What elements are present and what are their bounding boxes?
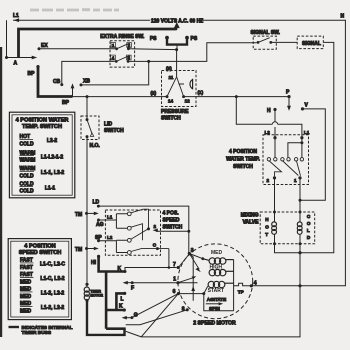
svg-text:BP: BP bbox=[28, 71, 36, 77]
thick internal timer buss top bbox=[19, 29, 177, 58]
motor node 1 bbox=[173, 276, 197, 284]
wire EX to pressure switch feed bbox=[39, 48, 177, 51]
node K1 bbox=[118, 266, 127, 273]
svg-text:COLD: COLD bbox=[20, 141, 35, 147]
pressure switch contact 11 bbox=[167, 75, 184, 96]
wire branch to speed switch 2 bbox=[153, 229, 191, 233]
label 4 POSITION WATER TEMP. SWITCH bbox=[226, 149, 260, 170]
svg-text:SPIN: SPIN bbox=[209, 306, 220, 311]
mixing valve box bbox=[260, 212, 315, 244]
svg-text:K: K bbox=[119, 304, 123, 310]
wire left rail bbox=[5, 20, 8, 59]
svg-text:L: L bbox=[307, 228, 310, 233]
lid switch box bbox=[81, 116, 99, 140]
node XB bbox=[80, 78, 91, 86]
wire N rail right side down to motor line bbox=[251, 20, 345, 286]
extra rinse switch box bbox=[110, 41, 135, 67]
wire lid switch down to timer motor bbox=[86, 137, 88, 287]
svg-text:L2: L2 bbox=[265, 130, 271, 135]
motor node 7 bbox=[173, 255, 189, 269]
svg-text:O: O bbox=[265, 225, 269, 230]
pressure switch box bbox=[162, 71, 197, 107]
wire contact 5 to signal switch bbox=[130, 43, 257, 63]
lid switch wire from BP line bbox=[86, 97, 88, 120]
motor blade 3 to HIGH with arrow bbox=[189, 254, 201, 273]
svg-text:HI: HI bbox=[91, 260, 97, 266]
node HI bbox=[91, 255, 100, 266]
extra rinse contact 4 bbox=[111, 55, 118, 63]
svg-text:K: K bbox=[118, 266, 122, 272]
speed row fast/med bbox=[20, 272, 65, 285]
speed switch blades bbox=[131, 209, 169, 251]
svg-text:SWITCH: SWITCH bbox=[161, 116, 181, 122]
svg-text:FAST: FAST bbox=[20, 265, 33, 271]
label PRESSURE SWITCH bbox=[161, 109, 189, 122]
faint washed-out header text bbox=[30, 8, 119, 11]
motor circle dashed bbox=[178, 244, 253, 319]
wire K to motor node 7 bbox=[125, 268, 177, 272]
svg-text:L1-2, L2-2: L1-2, L2-2 bbox=[41, 291, 65, 297]
wire H to L2 with hop bbox=[272, 110, 277, 138]
svg-text:L: L bbox=[121, 296, 124, 302]
hot solenoid coil bbox=[265, 211, 276, 246]
speed table title bbox=[19, 244, 62, 256]
svg-text:HIGH: HIGH bbox=[210, 264, 223, 270]
pressure switch contact 14 bbox=[166, 95, 174, 104]
svg-text:TIMER BUSS: TIMER BUSS bbox=[22, 330, 52, 336]
connector PS right bbox=[185, 36, 198, 42]
svg-text:AGITATE: AGITATE bbox=[207, 297, 226, 302]
svg-text:T: T bbox=[265, 232, 268, 237]
temp contact circles bbox=[267, 158, 303, 161]
svg-text:MED: MED bbox=[20, 308, 32, 314]
node C speed switch bbox=[153, 243, 159, 251]
svg-text:PRESSURE: PRESSURE bbox=[161, 109, 189, 115]
svg-text:4 POSITION WATER: 4 POSITION WATER bbox=[16, 118, 69, 124]
motor HIGH winding bbox=[209, 264, 234, 276]
svg-text:4 POS.: 4 POS. bbox=[163, 210, 180, 216]
extra rinse blade 4-5 bbox=[116, 55, 130, 61]
svg-text:XB: XB bbox=[83, 78, 90, 84]
node TM upper arrow bbox=[75, 212, 99, 218]
svg-text:2: 2 bbox=[267, 178, 270, 183]
svg-text:2: 2 bbox=[154, 224, 157, 229]
wire PS to EX junction bbox=[175, 45, 178, 52]
svg-text:8: 8 bbox=[182, 307, 185, 313]
svg-text:L1-C, L2-C: L1-C, L2-C bbox=[40, 262, 65, 268]
svg-text:CB: CB bbox=[53, 79, 61, 85]
wire L2 down to contact bbox=[274, 138, 276, 158]
pressure switch contact 12 bbox=[182, 95, 190, 104]
svg-text:MED: MED bbox=[211, 250, 223, 256]
motor MED winding bbox=[203, 250, 234, 264]
cold solenoid coil bbox=[297, 211, 311, 246]
extra rinse contact 2 bbox=[127, 43, 132, 51]
svg-text:TM: TM bbox=[75, 247, 82, 253]
node BP top bbox=[28, 65, 40, 77]
motor blade 3 to MED bbox=[189, 254, 204, 261]
speed row med/med 1 bbox=[20, 287, 64, 300]
water temp switch box right bbox=[263, 135, 309, 185]
svg-text:(1): (1) bbox=[198, 90, 204, 95]
thick buss vertical to K2 L bbox=[106, 272, 126, 329]
node AG bbox=[96, 219, 104, 229]
node V bbox=[301, 102, 309, 110]
connector PS left bbox=[150, 36, 169, 42]
connector PS U bracket bbox=[167, 38, 187, 45]
label MIXING VALVE bbox=[241, 212, 259, 225]
svg-text:SPEED: SPEED bbox=[163, 217, 180, 223]
wire node 6 diagonal to bottom corner bbox=[141, 294, 178, 337]
svg-text:LID: LID bbox=[104, 122, 112, 128]
wire F to motor node 1 bbox=[132, 282, 197, 284]
speed row fast/fast bbox=[20, 258, 65, 271]
svg-text:L2: L2 bbox=[107, 235, 113, 240]
svg-text:START: START bbox=[208, 288, 224, 294]
motor winding collector bbox=[233, 260, 235, 311]
svg-text:AG: AG bbox=[96, 222, 104, 228]
water temp row warm/cold bbox=[20, 166, 65, 179]
motor START winding bbox=[208, 281, 234, 294]
wire temp 1 to cold valve bbox=[299, 178, 301, 222]
svg-text:L1-1: L1-1 bbox=[45, 185, 56, 191]
svg-text:12: 12 bbox=[185, 99, 191, 104]
svg-text:L1-2, L2-2: L1-2, L2-2 bbox=[41, 305, 65, 311]
signal lamp box bbox=[297, 36, 323, 49]
node G terminal arrow bbox=[122, 312, 138, 319]
wire AG into speed switch bbox=[99, 214, 128, 228]
speed switch box bbox=[105, 210, 160, 255]
node EX bbox=[38, 43, 49, 51]
legend indicates internal timer buss bbox=[9, 325, 73, 336]
temp node 2 bbox=[267, 176, 277, 183]
signal switch box bbox=[253, 36, 276, 49]
wire down to pressure switch contact 11 bbox=[176, 50, 178, 77]
svg-text:F: F bbox=[131, 286, 134, 292]
svg-text:TM: TM bbox=[75, 212, 82, 218]
node 2 speed switch junction and arrow bbox=[147, 224, 157, 231]
wire L1 internal jog bbox=[288, 138, 304, 158]
svg-text:TP: TP bbox=[238, 290, 244, 295]
svg-text:4 POSITION: 4 POSITION bbox=[229, 149, 257, 155]
wire G to motor node 6 bbox=[132, 294, 179, 318]
wire SP into speed switch bbox=[99, 240, 128, 252]
label 120 VOLTS A.C. 60 HZ bbox=[150, 16, 203, 25]
water temp table title bbox=[16, 118, 69, 130]
svg-text:MIXING: MIXING bbox=[241, 212, 259, 218]
svg-text:SWITCH: SWITCH bbox=[233, 164, 253, 170]
wire signal down to valve common bbox=[300, 42, 334, 252]
svg-text:LD: LD bbox=[93, 200, 100, 206]
wire junction down to temp switch L1 bbox=[236, 97, 302, 138]
wire pressure 12 to P bbox=[184, 95, 289, 98]
node P terminal arrow bbox=[286, 90, 291, 111]
wire node 8 to buss corner bbox=[126, 310, 188, 325]
water temp row warm/warm bbox=[20, 150, 64, 163]
scan artifact left edge bar bbox=[0, 47, 2, 337]
svg-text:2 SPEED MOTOR: 2 SPEED MOTOR bbox=[193, 320, 236, 326]
svg-text:H: H bbox=[267, 108, 271, 114]
temp node 1 bbox=[294, 176, 302, 183]
thermal protector TP bbox=[234, 283, 246, 294]
motor node 8 bbox=[182, 307, 189, 313]
svg-text:COLD: COLD bbox=[20, 173, 35, 179]
svg-text:BP: BP bbox=[62, 100, 70, 106]
junction valve drop on motor line bbox=[298, 284, 301, 287]
svg-text:N: N bbox=[341, 14, 345, 20]
agitate spin frame bbox=[204, 294, 234, 311]
svg-text:SIGNAL: SIGNAL bbox=[302, 41, 321, 47]
node SP bbox=[95, 235, 102, 242]
pressure switch diaphragm bbox=[179, 79, 193, 90]
svg-text:VALVE: VALVE bbox=[243, 219, 260, 225]
node L bbox=[121, 292, 127, 303]
water temp table outer box bbox=[9, 112, 74, 198]
svg-text:L2-2: L2-2 bbox=[47, 138, 58, 144]
svg-text:N.O.: N.O. bbox=[90, 143, 101, 149]
node TM lower arrow bbox=[75, 247, 99, 253]
svg-text:SWITCH: SWITCH bbox=[163, 224, 183, 230]
wire cold bottom to common junction bbox=[298, 234, 301, 286]
svg-text:SP: SP bbox=[95, 235, 102, 241]
svg-text:L1-C, L2-2: L1-C, L2-2 bbox=[40, 276, 64, 282]
svg-text:1: 1 bbox=[294, 178, 297, 183]
wire temp 2 to hot valve bbox=[274, 178, 276, 222]
thick buss HI to K bbox=[99, 256, 125, 271]
svg-text:MED: MED bbox=[20, 294, 32, 300]
svg-text:L1: L1 bbox=[304, 130, 310, 135]
svg-text:14: 14 bbox=[168, 99, 174, 104]
label 4 POS. SPEED SWITCH bbox=[163, 210, 183, 230]
svg-text:L1: L1 bbox=[107, 214, 113, 219]
motor node 4 bbox=[246, 280, 257, 287]
node K2 bbox=[119, 304, 126, 312]
svg-text:11: 11 bbox=[169, 75, 174, 80]
svg-text:L1-L2-1-2: L1-L2-1-2 bbox=[41, 154, 63, 160]
svg-text:1: 1 bbox=[173, 277, 176, 283]
svg-text:EXTRA RINSE SW.: EXTRA RINSE SW. bbox=[100, 34, 145, 40]
svg-text:WATER TEMP.: WATER TEMP. bbox=[226, 157, 260, 163]
svg-text:4: 4 bbox=[254, 280, 257, 286]
svg-text:3: 3 bbox=[191, 248, 194, 254]
water temp row cold/cold bbox=[20, 181, 56, 194]
wire XB up to rinse output junction bbox=[81, 61, 149, 85]
node F terminal arrow bbox=[123, 281, 134, 292]
motor node 3 bbox=[188, 248, 194, 255]
water temp row hot/cold bbox=[20, 134, 58, 147]
svg-text:EX: EX bbox=[41, 43, 48, 49]
svg-text:7: 7 bbox=[173, 262, 176, 268]
wire CB to extra rinse contact 4 bbox=[62, 61, 115, 84]
svg-text:L1-1, L2-2: L1-1, L2-2 bbox=[41, 170, 65, 176]
wire timer motor down and right bbox=[87, 301, 125, 335]
svg-text:SPEED SWITCH: SPEED SWITCH bbox=[19, 250, 62, 256]
wire C down to K line bbox=[168, 249, 170, 268]
svg-text:4 POSITION: 4 POSITION bbox=[24, 244, 55, 250]
speed row med/med 2 bbox=[20, 301, 64, 314]
svg-text:COLD: COLD bbox=[20, 189, 35, 195]
node H bbox=[267, 108, 277, 114]
signal switch contacts bbox=[257, 38, 273, 44]
extra rinse contact 1 bbox=[111, 43, 118, 51]
temp switch blades bbox=[269, 161, 300, 176]
wire bottom loop to valve common bbox=[126, 286, 300, 337]
lid switch contacts bbox=[86, 118, 94, 138]
arrow buss to L1 line bbox=[175, 23, 179, 30]
svg-text:6: 6 bbox=[173, 289, 176, 295]
svg-text:SIGNAL SW.: SIGNAL SW. bbox=[251, 30, 281, 36]
thick buss BP bbox=[38, 67, 73, 97]
svg-text:(2): (2) bbox=[151, 91, 157, 96]
extra rinse contact 5 bbox=[127, 55, 132, 63]
label AGITATE with arrow bbox=[206, 297, 226, 305]
svg-text:PS: PS bbox=[150, 36, 157, 42]
node LD bbox=[93, 200, 100, 208]
wire BP to pressure contact 14 bbox=[73, 95, 168, 98]
node CB bbox=[53, 79, 63, 86]
wire signal sw to signal bbox=[271, 41, 297, 43]
speed switch table outer box bbox=[8, 239, 71, 320]
timer motor coil bbox=[84, 283, 103, 302]
svg-text:PS: PS bbox=[191, 36, 198, 42]
svg-text:TEMP. SWITCH: TEMP. SWITCH bbox=[22, 124, 62, 130]
motor rotor line with arrow bbox=[189, 254, 195, 301]
svg-text:MED: MED bbox=[20, 279, 32, 285]
svg-text:WARM: WARM bbox=[20, 158, 36, 164]
svg-text:L1: L1 bbox=[13, 13, 19, 19]
wire V to cold valve feed bbox=[299, 109, 326, 202]
svg-text:O: O bbox=[307, 221, 311, 226]
wire L1-N 120V top line bbox=[13, 18, 346, 22]
svg-text:SWITCH: SWITCH bbox=[104, 128, 124, 134]
arrow terminal BP up bbox=[62, 83, 74, 105]
node L1 temp bbox=[300, 130, 309, 139]
label LID SWITCH bbox=[104, 122, 124, 134]
svg-text:A: A bbox=[14, 61, 18, 67]
svg-text:INDICATES INTERNAL: INDICATES INTERNAL bbox=[22, 325, 73, 331]
node L2 temp bbox=[265, 130, 277, 139]
extra rinse blade 1-2 bbox=[117, 43, 131, 49]
motor node 6 bbox=[173, 286, 208, 295]
speed contact circles bbox=[127, 212, 131, 255]
svg-text:MOTOR: MOTOR bbox=[90, 293, 103, 297]
wire hot bottom to common bbox=[275, 234, 301, 253]
node A with arrow bbox=[7, 56, 38, 67]
wire LD to motor node 3 bbox=[98, 206, 188, 256]
